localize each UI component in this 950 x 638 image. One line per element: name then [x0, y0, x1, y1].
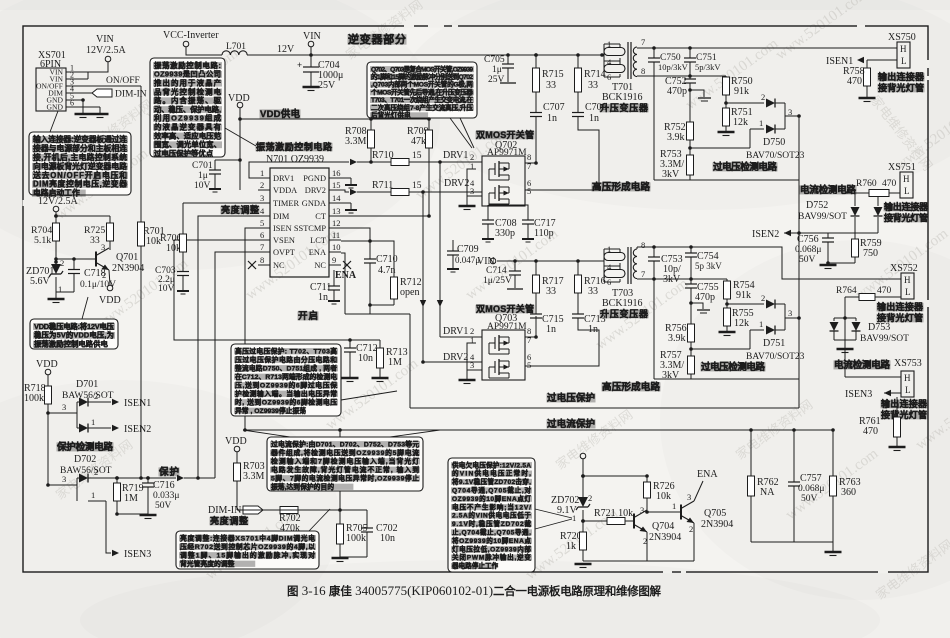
svg-text:VCC-Inverter: VCC-Inverter — [163, 30, 219, 41]
svg-text:振荡激励控制电路供电: 振荡激励控制电路供电 — [34, 340, 109, 349]
svg-text:5.6V: 5.6V — [30, 276, 51, 287]
svg-text:10V: 10V — [158, 284, 175, 294]
svg-text:XS752: XS752 — [890, 263, 918, 274]
svg-text:检测输入端和7脚检测电压输入端,当背光灯: 检测输入端和7脚检测电压输入端,当背光灯 — [271, 456, 419, 465]
capacitor C707 — [530, 112, 542, 114]
label high voltage forming circuit top — [592, 182, 651, 191]
svg-text:C705: C705 — [484, 55, 505, 65]
svg-text:3.3M: 3.3M — [345, 136, 367, 147]
capacitor C716 — [146, 476, 150, 480]
svg-text:护检测输入端。当输出电压异常: 护检测输入端。当输出电压异常 — [235, 389, 337, 398]
svg-text:10k: 10k — [166, 243, 181, 254]
svg-text:图 3-16 康佳 34005775(KIP060102-: 图 3-16 康佳 34005775(KIP060102-01)二合一电源板电路… — [287, 583, 662, 598]
ground C705 — [500, 82, 516, 84]
svg-text:14: 14 — [332, 193, 341, 203]
svg-text:33: 33 — [588, 80, 598, 91]
wire 12V rail into T701 pin4 — [602, 54, 604, 56]
svg-text:BAW56/SOT: BAW56/SOT — [60, 466, 112, 476]
svg-text:33: 33 — [546, 286, 556, 297]
svg-text:N701 OZ9939: N701 OZ9939 — [266, 154, 324, 165]
scan shading — [0, 0, 440, 270]
wire DIM-IN to R702 — [263, 509, 280, 511]
svg-text:C714: C714 — [486, 266, 507, 276]
svg-text:关闭PWM脉冲输出,逆变: 关闭PWM脉冲输出,逆变 — [452, 553, 531, 562]
terminal VDD mid — [237, 102, 243, 108]
svg-text:1: 1 — [260, 168, 264, 178]
svg-text:L: L — [901, 56, 907, 66]
svg-text:动、稳压、保护电路,: 动、稳压、保护电路, — [154, 105, 221, 114]
svg-text:1: 1 — [672, 501, 676, 511]
svg-text:2: 2 — [761, 92, 765, 102]
svg-text:3: 3 — [788, 308, 792, 318]
svg-text:750: 750 — [863, 248, 878, 259]
svg-text:过电流保护:由D701、D702、D752、D753等元: 过电流保护:由D701、D702、D752、D753等元 — [271, 439, 419, 448]
wire HV box bottom edge — [654, 179, 799, 181]
svg-text:接背光灯管: 接背光灯管 — [881, 409, 927, 420]
svg-text:33: 33 — [546, 80, 556, 91]
svg-text:3: 3 — [687, 492, 691, 502]
wire Q704/Q705 emitters ground rail — [646, 532, 648, 561]
svg-text:C709: C709 — [457, 244, 479, 255]
label output connector XS750 — [878, 73, 925, 82]
wire OVPT pin7 protection net — [215, 252, 270, 478]
svg-text:1: 1 — [759, 319, 763, 329]
svg-text:高压形成电路: 高压形成电路 — [602, 381, 660, 393]
svg-text:5p 3kV: 5p 3kV — [695, 261, 722, 271]
capacitor C750 — [653, 48, 655, 58]
svg-text:送去ON/OFF开启电压和: 送去ON/OFF开启电压和 — [32, 170, 127, 180]
svg-text:逆变器部分: 逆变器部分 — [348, 32, 406, 46]
label overvoltage protection — [547, 393, 596, 402]
svg-text:VIN: VIN — [96, 34, 114, 45]
svg-text:DRV2: DRV2 — [443, 352, 468, 363]
svg-text:1n: 1n — [318, 292, 328, 303]
svg-text:5: 5 — [260, 218, 264, 228]
label output connector XS753 — [881, 400, 928, 409]
svg-text:BCK1916: BCK1916 — [602, 298, 643, 309]
svg-text:91k: 91k — [734, 86, 749, 97]
wire Q703 gate return loop — [467, 343, 482, 370]
diode D751 dual BAV70 — [727, 303, 764, 305]
svg-text:D750: D750 — [763, 137, 785, 148]
resistor R750 — [725, 76, 727, 77]
svg-text:NC: NC — [273, 261, 285, 270]
svg-text:0.033μ: 0.033μ — [153, 491, 179, 501]
wire Q703 drain node — [525, 336, 536, 338]
svg-text:360: 360 — [841, 487, 856, 498]
svg-text:稳压为5V的VDD电压,为: 稳压为5V的VDD电压,为 — [34, 331, 114, 340]
note overcurrent protection — [267, 437, 423, 491]
svg-text:VDD: VDD — [99, 295, 121, 306]
svg-text:1μ/25V: 1μ/25V — [483, 276, 512, 286]
svg-text:10: 10 — [332, 242, 341, 252]
ground C755 mini — [691, 303, 703, 309]
wire D702 pin1 to ISEN3 — [88, 500, 106, 502]
svg-text:1: 1 — [759, 118, 763, 128]
note brightness adjust — [176, 531, 319, 569]
svg-text:12V: 12V — [277, 44, 295, 55]
ground C708 — [482, 238, 494, 240]
ground C703 — [177, 290, 189, 292]
wire DRV1 drop to Q703 — [439, 162, 441, 337]
svg-text:ENA: ENA — [697, 469, 718, 480]
svg-text:振荡激励控制电路: 振荡激励控制电路 — [256, 141, 333, 152]
capacitor C715 — [530, 313, 542, 315]
svg-text:Q702、Q703是复合MOS开关管,OZ9939: Q702、Q703是复合MOS开关管,OZ9939 — [371, 64, 473, 73]
node ISEN1 flag right — [857, 57, 864, 63]
wire Q701 emitter to VDD — [109, 270, 110, 285]
wire GND pins — [81, 98, 85, 102]
wire Q703 pins 6/5 stub — [525, 365, 541, 367]
capacitor C713 — [572, 313, 584, 315]
svg-text:DRV2: DRV2 — [444, 178, 469, 189]
ground C711 — [328, 300, 340, 302]
svg-text:时, 送到OZ9939的6脚检测电压: 时, 送到OZ9939的6脚检测电压 — [235, 397, 337, 406]
capacitor C710 — [364, 258, 376, 260]
svg-text:的液晶逆变器具有: 的液晶逆变器具有 — [154, 123, 222, 132]
svg-text:2N3904: 2N3904 — [649, 532, 681, 543]
svg-text:D752: D752 — [806, 200, 828, 211]
no-connect marks pins 8 and 9 — [248, 261, 256, 269]
pointer line from note to XS701 — [50, 111, 58, 132]
svg-text:LCT: LCT — [310, 236, 326, 245]
svg-text:0.068μ: 0.068μ — [795, 245, 821, 255]
svg-text:推出的用于液晶产: 推出的用于液晶产 — [154, 79, 221, 88]
terminal VDD out — [107, 285, 113, 291]
svg-text:保护: 保护 — [158, 466, 179, 478]
svg-text:1n: 1n — [589, 113, 599, 124]
svg-text:OZ9939的10脚ENA点灯: OZ9939的10脚ENA点灯 — [452, 494, 531, 503]
note input connector description — [29, 132, 131, 195]
svg-text:9: 9 — [332, 255, 336, 265]
svg-text:12k: 12k — [734, 318, 749, 329]
resistor R714 — [577, 55, 579, 68]
pointer from note to sense node — [341, 391, 397, 400]
wire VSEN pin6 to C712/R713 sense node — [174, 240, 350, 340]
svg-text:VSEN: VSEN — [273, 236, 295, 245]
ground Q702 source — [466, 196, 468, 205]
svg-text:BAV70/SOT23: BAV70/SOT23 — [746, 352, 805, 362]
svg-text:1n: 1n — [547, 113, 557, 124]
wire Q702 pin4/3 entry — [476, 161, 482, 163]
svg-text:470: 470 — [847, 76, 862, 87]
svg-text:L: L — [904, 186, 910, 196]
svg-text:NA: NA — [760, 487, 775, 498]
IC N701 body — [270, 168, 329, 277]
svg-text:open: open — [400, 287, 419, 298]
label protection detect circuit — [57, 442, 114, 451]
label brightness adjust on DIM wire — [221, 206, 260, 215]
svg-text:输出连接器: 输出连接器 — [878, 71, 925, 82]
ground IC pin16 PGND — [341, 177, 351, 179]
wire VIN row to T703 — [497, 260, 604, 262]
resistor R759 — [852, 239, 859, 257]
svg-text:1μ: 1μ — [492, 65, 502, 75]
svg-text:ISEN: ISEN — [273, 224, 292, 233]
svg-text:XS751: XS751 — [888, 162, 916, 173]
resistor R717 — [534, 259, 538, 263]
op-amp U1 label oscillator IC name — [256, 143, 333, 152]
svg-text:6: 6 — [260, 230, 264, 240]
svg-text:DIM-IN: DIM-IN — [208, 505, 241, 516]
svg-text:5.1k: 5.1k — [34, 235, 51, 246]
svg-text:R760: R760 — [856, 179, 877, 189]
svg-text:10p/3kV: 10p/3kV — [658, 62, 689, 72]
resistor R726 — [646, 498, 648, 510]
resistor R716 — [576, 259, 580, 263]
svg-text:R715: R715 — [542, 69, 564, 80]
svg-text:33: 33 — [588, 286, 598, 297]
svg-text:Q704导通,Q705截止,对: Q704导通,Q705截止,对 — [452, 485, 531, 494]
ground common rail bottom right — [751, 541, 833, 543]
svg-text:VDD供电: VDD供电 — [260, 108, 300, 120]
svg-text:ISEN1: ISEN1 — [124, 398, 151, 409]
ground R761 — [889, 446, 906, 448]
svg-text:2: 2 — [689, 524, 693, 534]
svg-text:将9.1V稳压管ZD702击穿,: 将9.1V稳压管ZD702击穿, — [452, 477, 531, 486]
svg-text:Q704: Q704 — [652, 521, 674, 532]
svg-text:振荡激励控制电路:: 振荡激励控制电路: — [154, 61, 221, 70]
svg-text:利用OZ9939组成: 利用OZ9939组成 — [153, 114, 222, 123]
svg-text:100k: 100k — [346, 533, 366, 544]
capacitor C752 — [689, 76, 691, 79]
svg-text:保护检测电路: 保护检测电路 — [56, 441, 113, 453]
svg-text:470p: 470p — [667, 86, 687, 97]
svg-text:个MOS开关管先后导通,在升压变压器: 个MOS开关管先后导通,在升压变压器 — [370, 87, 473, 96]
svg-text:VIN: VIN — [303, 31, 321, 42]
svg-text:R714: R714 — [584, 69, 606, 80]
ground Q703 source — [466, 370, 468, 379]
svg-text:10V: 10V — [194, 181, 211, 191]
label current detection circuit bottom — [834, 360, 891, 369]
svg-text:向电源板背光灯逆变器电路: 向电源板背光灯逆变器电路 — [33, 161, 127, 171]
svg-text:品背光控制检测电: 品背光控制检测电 — [154, 87, 222, 96]
wire DRV1 to Q702 — [409, 161, 476, 163]
svg-text:H: H — [904, 275, 911, 285]
svg-text:47k: 47k — [411, 136, 426, 147]
resistor R755 — [724, 308, 731, 326]
svg-text:3: 3 — [101, 242, 105, 252]
pointer from note to ZD702 — [535, 509, 572, 518]
svg-text:10k: 10k — [146, 236, 161, 247]
wire VCC to L701 — [186, 47, 222, 55]
svg-text:7: 7 — [260, 242, 264, 252]
svg-text:0.068μ: 0.068μ — [798, 484, 824, 494]
ground R751 — [718, 131, 735, 133]
transistor Q705 2N3904 — [680, 505, 682, 520]
svg-text:输入连接器:逆变器板通过连: 输入连接器:逆变器板通过连 — [33, 134, 127, 144]
svg-text:整流电路D750、D751组成 , 两者: 整流电路D750、D751组成 , 两者 — [234, 363, 337, 372]
resistor R762 — [750, 430, 752, 476]
svg-text:9.1V时,稳压管ZD702截: 9.1V时,稳压管ZD702截 — [452, 519, 531, 528]
svg-text:亮度调整: 亮度调整 — [221, 204, 259, 215]
wire TIMER pin3 to R706 — [183, 202, 270, 204]
svg-text:器电路停止工作: 器电路停止工作 — [451, 561, 499, 570]
wire SSTCMP pin12 to C710 — [341, 228, 370, 259]
svg-text:输出连接器: 输出连接器 — [877, 301, 924, 312]
resistor R715 — [535, 55, 537, 68]
svg-text:2: 2 — [761, 293, 765, 303]
svg-text:BAV99/SOT: BAV99/SOT — [860, 334, 909, 344]
ground C712 — [342, 377, 359, 379]
svg-text:15: 15 — [332, 180, 341, 190]
svg-text:33: 33 — [90, 235, 100, 246]
resistor R705 — [339, 510, 341, 524]
svg-text:10k: 10k — [656, 491, 671, 502]
svg-text:3: 3 — [470, 186, 474, 196]
capacitor C718 — [73, 259, 75, 269]
wire R764 feed down to XS753 — [844, 297, 846, 377]
svg-text:470: 470 — [877, 286, 892, 296]
ground XS701 pin5 — [75, 113, 92, 115]
svg-text:ENA: ENA — [309, 248, 326, 257]
svg-text:C716: C716 — [153, 480, 175, 491]
label inverter section — [348, 34, 407, 44]
svg-text:将OZ9939的10脚ENA点: 将OZ9939的10脚ENA点 — [452, 536, 531, 545]
svg-text:H: H — [900, 44, 907, 54]
pointer from note to protection wire — [243, 430, 290, 437]
resistor R702 — [280, 507, 298, 514]
svg-text:3kV: 3kV — [662, 169, 680, 180]
note VDD regulator — [30, 319, 118, 349]
svg-text:12V/2.5A: 12V/2.5A — [38, 196, 79, 207]
ground R755 — [719, 331, 736, 333]
svg-text:ENA: ENA — [335, 270, 357, 281]
svg-text:GND: GND — [47, 103, 64, 112]
node DIM-IN flag at XS701 — [78, 92, 92, 94]
wire VDD vertical and VDD rail — [239, 108, 241, 190]
ground C717 — [522, 238, 534, 240]
svg-text:5脚、7脚的电流检测电压异常时,OZ9939停止: 5脚、7脚的电流检测电压异常时,OZ9939停止 — [271, 473, 419, 482]
svg-text:11: 11 — [332, 230, 340, 240]
svg-text:1μ: 1μ — [198, 171, 208, 181]
svg-text:2N3904: 2N3904 — [701, 519, 733, 530]
wire ENA/start row to protection box — [345, 313, 410, 315]
resistor R751 — [723, 108, 730, 126]
svg-text:1: 1 — [572, 513, 576, 523]
capacitor C754 — [690, 247, 692, 253]
ground C714 — [507, 288, 523, 290]
svg-text:振荡,达到保护的目的: 振荡,达到保护的目的 — [271, 482, 334, 491]
svg-text:OZ9939是凹凸公司: OZ9939是凹凸公司 — [154, 70, 221, 79]
svg-text:D751: D751 — [763, 338, 785, 349]
svg-text:C757: C757 — [800, 473, 822, 484]
svg-text:C718: C718 — [84, 268, 106, 279]
svg-text:NC: NC — [314, 261, 326, 270]
terminal VDD for R703 — [234, 446, 240, 452]
svg-text:91k: 91k — [736, 290, 751, 301]
ground C709 — [447, 268, 459, 270]
svg-text:升压变压器: 升压变压器 — [600, 308, 649, 319]
svg-text:1: 1 — [91, 490, 95, 500]
wire DIM pin4 down-left — [198, 216, 270, 478]
svg-text:止,Q704截止,Q705导通,: 止,Q704截止,Q705导通, — [452, 527, 531, 536]
svg-text:H: H — [903, 174, 910, 184]
svg-text:BCK1916: BCK1916 — [602, 92, 643, 103]
svg-text:2N3904: 2N3904 — [112, 263, 144, 274]
transistor Q703 dual MOSFET — [476, 305, 535, 314]
svg-text:后背光灯供电: 后背光灯供电 — [371, 110, 411, 119]
label high voltage forming circuit bottom — [602, 382, 661, 391]
wire HV box left edge — [653, 76, 655, 180]
svg-text:C756: C756 — [797, 234, 819, 245]
svg-text:3.9k: 3.9k — [668, 333, 686, 344]
svg-text:10n: 10n — [380, 533, 395, 544]
svg-text:8: 8 — [641, 66, 645, 76]
svg-text:5p/3kV: 5p/3kV — [695, 62, 721, 72]
ground R720 — [575, 563, 592, 565]
svg-text:470: 470 — [863, 426, 878, 437]
resistor R719 — [115, 476, 119, 480]
wire VIN rail to R726 — [583, 475, 647, 477]
svg-text:的1脚和15脚的激励脉冲分别送到Q702: 的1脚和15脚的激励脉冲分别送到Q702 — [371, 72, 473, 81]
svg-text:接,开机后,主电路控制系统: 接,开机后,主电路控制系统 — [33, 152, 127, 162]
svg-text:ON/OFF: ON/OFF — [106, 76, 140, 86]
svg-text:PGND: PGND — [303, 174, 326, 183]
svg-text:6: 6 — [70, 99, 74, 108]
svg-text:ISEN3: ISEN3 — [124, 549, 151, 560]
wire C706 to Q702 pins 6/5 — [541, 117, 599, 190]
wire lower HV box bottom edge — [654, 378, 799, 380]
terminal VIN for undervoltage sense — [580, 453, 586, 459]
capacitor C708 — [487, 205, 489, 220]
svg-text:1n: 1n — [546, 324, 556, 335]
wire Q702 gate return loop — [467, 169, 482, 196]
wire VIN sense vertical — [582, 459, 584, 495]
svg-text:3: 3 — [640, 505, 644, 515]
ground D753 — [837, 348, 854, 350]
svg-text:13: 13 — [332, 206, 341, 216]
wire DRV2 to Q702 — [409, 191, 476, 193]
junction dots — [369, 117, 373, 121]
ground R713 — [372, 377, 389, 379]
svg-text:H: H — [904, 373, 911, 383]
svg-text:调整1脚、15脚输出的激励脉冲,实现对: 调整1脚、15脚输出的激励脉冲,实现对 — [180, 550, 315, 559]
svg-text:2: 2 — [60, 258, 64, 268]
svg-text:0.1μ/10V: 0.1μ/10V — [80, 280, 116, 290]
svg-text:5: 5 — [527, 186, 531, 196]
svg-text:升压变压器: 升压变压器 — [600, 102, 649, 113]
svg-text:ISEN3: ISEN3 — [845, 389, 872, 400]
pointer from note to R702 — [309, 509, 330, 531]
svg-text:,Q703内部两个MOS开关管的G极,两: ,Q703内部两个MOS开关管的G极,两 — [371, 80, 473, 89]
svg-text:DRV1: DRV1 — [273, 174, 294, 183]
svg-text:R710: R710 — [372, 150, 394, 161]
svg-text:1M: 1M — [124, 493, 138, 504]
svg-text:OVPT: OVPT — [273, 248, 295, 257]
terminal VIN 12V/2.5A top-left — [105, 56, 111, 62]
wire R705 C702 top — [340, 509, 367, 511]
svg-text:BAV70/SOT23: BAV70/SOT23 — [746, 151, 805, 161]
wire DIM junction down from box — [339, 430, 341, 437]
svg-text:电压不产生影响;当12V/: 电压不产生影响;当12V/ — [452, 502, 531, 511]
wire DRV2 drop to Q703 — [422, 192, 424, 362]
zener ZD701 5.6V — [54, 260, 58, 264]
svg-text:3.3M: 3.3M — [243, 471, 265, 482]
svg-text:高压形成电路: 高压形成电路 — [592, 181, 650, 193]
resistor R758 — [866, 60, 868, 68]
svg-text:DRV1: DRV1 — [443, 150, 468, 161]
svg-text:VDD: VDD — [36, 359, 58, 370]
svg-text:15: 15 — [412, 181, 422, 191]
node ISEN3 flag right — [884, 392, 901, 394]
svg-text:过电压保护等优点: 过电压保护等优点 — [154, 149, 214, 158]
ground C701 — [209, 188, 221, 190]
wire ISEN2 node — [784, 232, 878, 234]
svg-text:VDD: VDD — [225, 436, 247, 447]
wire start line drop — [369, 305, 371, 314]
note high-voltage overvoltage protection — [231, 344, 341, 416]
